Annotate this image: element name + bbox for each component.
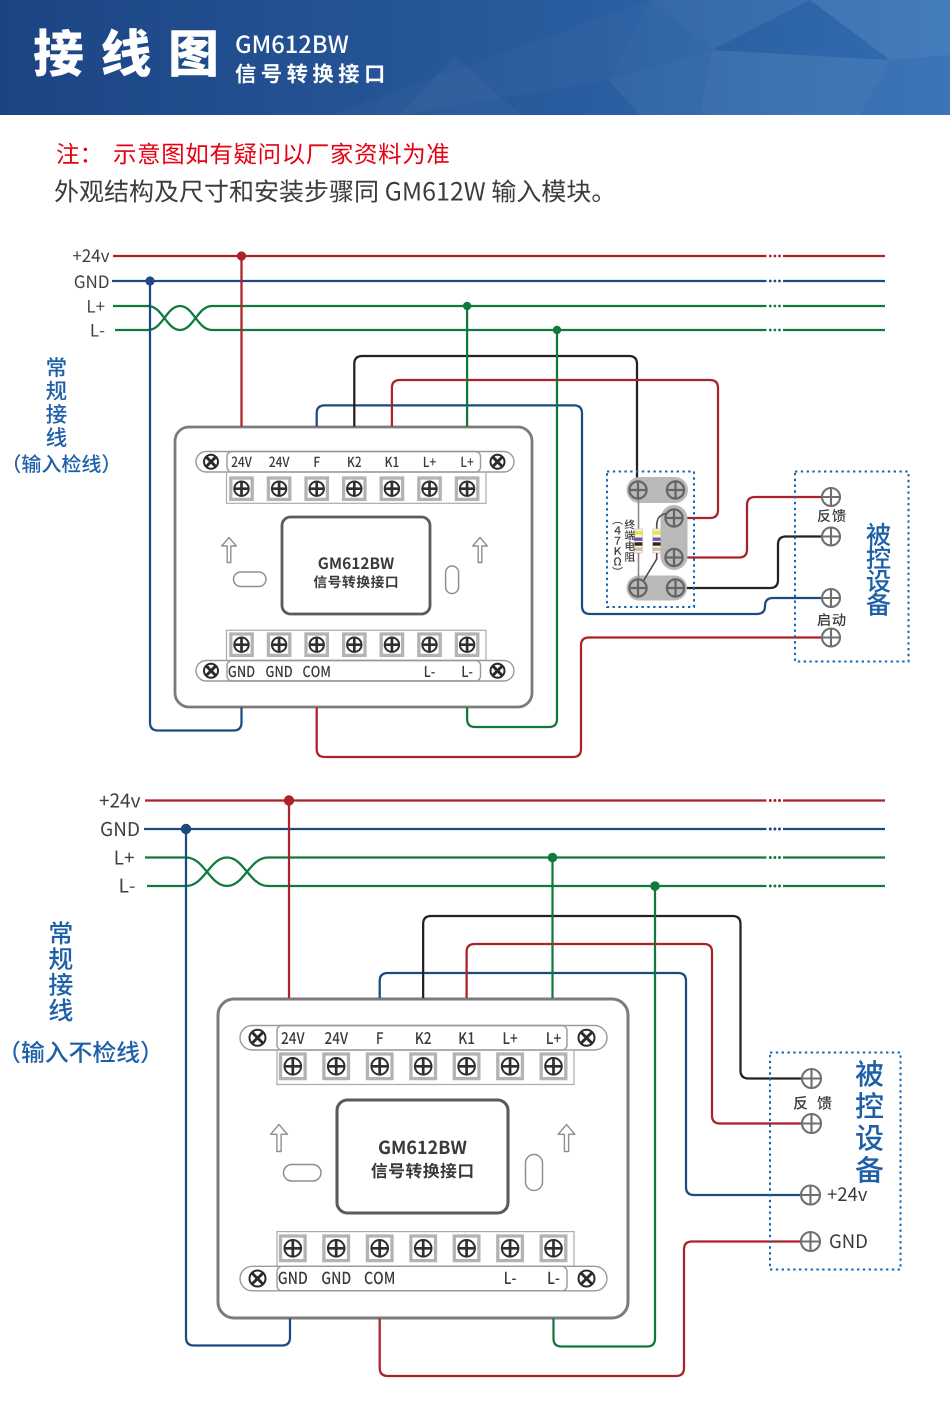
U2 bottom terminal label strip xyxy=(240,1266,607,1291)
wire U2 pin COM to GND terminal of device (red) xyxy=(380,1242,801,1377)
net GND bus rail xyxy=(75,275,885,288)
wire L- bus to U2 pin L- (green) xyxy=(554,886,656,1347)
resistor R2 47K (right) xyxy=(642,513,669,584)
terminal 反馈 screw 1 (diag2) xyxy=(802,1069,821,1088)
junction GND / U2 GND (diag2) xyxy=(181,824,191,834)
label 反馈 (diag2) xyxy=(794,1096,832,1110)
U2 label 信号转换接口 xyxy=(371,1163,472,1179)
U2 top terminal block xyxy=(277,1050,574,1085)
label +24v (diag2) xyxy=(828,1187,868,1201)
resistor block bottom connector xyxy=(627,576,688,601)
U2 slot right xyxy=(526,1155,543,1191)
net L+ bus rail (twisted pair) xyxy=(116,851,885,886)
terminal 反馈 screw 2 (diag1) xyxy=(822,528,840,546)
terminal GND screw (diag2) xyxy=(801,1232,820,1251)
wire U1 pin F to 启动 terminal (blue) xyxy=(317,405,823,614)
U2 label GM612BW xyxy=(379,1140,467,1154)
resistor block screw 6 xyxy=(667,579,684,596)
subtitle GM612BW xyxy=(236,35,348,53)
resistor block screw 5 xyxy=(629,579,646,596)
junction L+ / U1 L+ (diag1) xyxy=(463,302,471,310)
wire GND bus to U2 pin GND (blue, left side) xyxy=(186,829,290,1346)
terminal 反馈 screw 2 (diag2) xyxy=(802,1114,821,1133)
wire U2 pin F to +24v terminal of device (blue) xyxy=(380,973,801,1195)
U2 bottom terminal block xyxy=(277,1232,574,1267)
device label 被控设备 (diag2) xyxy=(856,1060,884,1183)
device label 被控设备 (diag1) xyxy=(867,523,891,616)
U2 case screw (X) top 1 xyxy=(250,1030,266,1046)
wire resistor block to 反馈 terminal 2 (black) xyxy=(684,537,823,589)
junction +24v / U2 24V (diag2) xyxy=(284,795,294,805)
U1 bottom terminal block xyxy=(227,630,487,660)
controlled device 被控设备 dashed box (diag1) xyxy=(795,472,909,662)
controlled device 被控设备 dashed box (diag2) xyxy=(770,1053,901,1270)
U2 top pin labels 24V 24V F K2 K1 L+ L+ xyxy=(282,1032,561,1044)
junction +24v / U1 24V (diag1) xyxy=(237,251,246,260)
U1 bottom terminal label strip xyxy=(196,661,514,682)
U2 bottom pin labels GND GND COM L- L- xyxy=(279,1272,560,1285)
U1 orientation arrow left xyxy=(222,538,237,563)
wire U2 pin K1 to 反馈 terminal 2 (red) xyxy=(467,944,802,1124)
net +24v bus rail xyxy=(73,249,885,262)
title 接线图 xyxy=(34,28,216,77)
caption 常规接线 (diagram 1) xyxy=(46,357,66,447)
U1 slot left xyxy=(234,572,267,587)
wire resistor block to 反馈 terminal 1 (red) xyxy=(684,497,823,558)
wire L- bus to U1 pin L- (green) xyxy=(467,330,557,727)
U2 case screw (X) top 2 xyxy=(579,1030,595,1046)
U1 case screw (X) top 1 xyxy=(204,455,218,469)
wire GND bus to U1 pin GND (blue, left side) xyxy=(150,281,242,731)
wire U1 pin COM to 启动 terminal 2 (red) xyxy=(317,638,823,758)
junction L- / U1 L- (diag1) xyxy=(553,326,561,334)
U2 orientation arrow right xyxy=(558,1125,575,1152)
module U1 GM612BW outer case xyxy=(175,427,532,707)
resistor block screw 4 xyxy=(665,549,682,566)
resistor block screw 1 xyxy=(629,481,646,498)
U1 orientation arrow right xyxy=(473,538,488,563)
wire U1 pin K1 to resistor block (red) xyxy=(392,380,718,518)
note line 1 (red) 注：示意图如有疑问以厂家资料为准 xyxy=(57,143,449,165)
U1 slot right xyxy=(446,566,459,594)
wire U2 pin K2 to 反馈 terminal 1 (black) xyxy=(423,916,801,1079)
net +24v bus rail xyxy=(100,793,885,807)
resistor block top connector xyxy=(627,477,689,503)
terminal +24v screw (diag2) xyxy=(801,1186,820,1205)
junction L- / U2 L- (diag2) xyxy=(650,881,660,891)
junction L+ / U2 L+ (diag2) xyxy=(548,853,558,863)
U1 top terminal label strip xyxy=(196,452,514,473)
label 反馈 (diag1) xyxy=(818,509,846,522)
resistor R1 47K (left) xyxy=(635,498,643,581)
resistor block screw 2 xyxy=(667,481,684,498)
U2 orientation arrow left xyxy=(271,1125,288,1152)
caption (输入不检线) (diagram 2) xyxy=(13,1041,147,1064)
value label 终端电阻 (47KΩ) xyxy=(612,519,635,569)
header banner background xyxy=(0,0,950,115)
U1 top terminal block xyxy=(227,472,487,503)
resistor block middle connector xyxy=(661,505,688,570)
label GND (diag2) xyxy=(830,1234,867,1248)
net L- bus rail (twisted pair) xyxy=(92,306,885,337)
label 启动 (diag1) xyxy=(817,613,845,626)
terminal 启动 screw 1 (diag1) xyxy=(822,589,840,607)
U1 center label box xyxy=(282,517,430,614)
U1 top pin labels 24V 24V F K2 K1 L+ L+ xyxy=(232,457,474,468)
net L+ bus rail (twisted pair) xyxy=(88,300,885,330)
U1 bottom pin labels GND GND COM L- L- xyxy=(229,666,473,677)
net GND bus rail xyxy=(101,822,885,836)
U2 top terminal label strip xyxy=(240,1026,607,1051)
terminal 反馈 screw 1 (diag1) xyxy=(822,488,840,506)
U1 label GM612BW xyxy=(319,557,394,569)
wire +24v bus to U1 pin 24V (red) xyxy=(240,256,242,427)
subtitle 信号转换接口 xyxy=(236,63,384,83)
wire +24v bus to U2 pin 24V (red) xyxy=(288,801,290,999)
U2 case screw (X) bottom 2 xyxy=(579,1271,595,1287)
U1 label 信号转换接口 xyxy=(314,575,398,588)
U2 slot left xyxy=(284,1165,322,1182)
wire L+ bus to U2 pin L+ (green) xyxy=(551,858,553,999)
module U2 GM612BW outer case xyxy=(218,999,628,1318)
junction GND / U1 GND (diag1) xyxy=(145,276,154,285)
U2 center label box xyxy=(337,1100,508,1213)
wire L+ bus to U1 pin L+ (green) xyxy=(466,306,468,427)
wire U1 pin K2 to resistor block (black) xyxy=(354,356,637,483)
net L- bus rail (twisted pair) xyxy=(121,858,886,893)
terminal 启动 screw 2 (diag1) xyxy=(822,629,840,647)
U1 case screw (X) bottom 2 xyxy=(491,664,505,678)
caption (输入检线) (diagram 1) xyxy=(15,454,108,473)
resistor block screw 3 xyxy=(665,509,682,526)
terminal resistor assembly dashed box xyxy=(607,472,694,608)
U1 case screw (X) bottom 1 xyxy=(204,664,218,678)
U2 case screw (X) bottom 1 xyxy=(250,1271,266,1287)
U1 case screw (X) top 2 xyxy=(491,455,505,469)
note line 2 外观结构及尺寸和安装步骤同 GM612W 输入模块 xyxy=(55,179,600,202)
caption 常规接线 (diagram 2) xyxy=(49,921,73,1021)
